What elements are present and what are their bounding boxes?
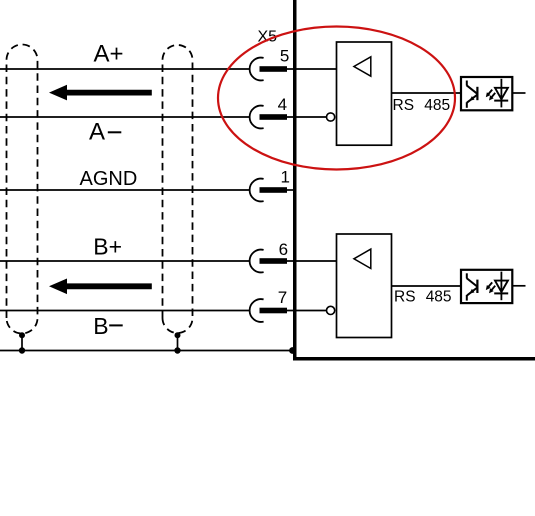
device frame border vertical: [293, 0, 297, 360]
pin 7 contact bar: [260, 308, 288, 314]
pin 6 stub wire to receiver: [287, 260, 337, 262]
OC1 light arrow b: [491, 93, 496, 99]
shield bus wire: [0, 350, 293, 352]
svg-text:RS: RS: [393, 97, 415, 114]
junction dot capsule 1 to shield bus: [19, 347, 25, 353]
optocoupler OC2: [461, 270, 526, 303]
junction dot shield bus to frame: [289, 347, 296, 354]
optocoupler OC1 box: [461, 77, 512, 110]
receiver U2 triangle: [354, 249, 371, 268]
svg-text:485: 485: [424, 97, 450, 114]
signal direction arrow 2: [49, 279, 152, 295]
OC1 right stub wire: [512, 92, 525, 94]
wire B+: [0, 260, 249, 262]
shield drain wire capsule 2: [177, 335, 179, 350]
svg-text:AGND: AGND: [80, 168, 138, 190]
pin 4 contact bar: [260, 114, 288, 120]
pin 5 contact bar: [260, 66, 288, 72]
OC1 light arrow a: [487, 90, 492, 96]
OC1 phototransistor emitter stub: [466, 102, 468, 108]
wire A-: [0, 116, 249, 118]
red highlight ellipse: [218, 27, 455, 170]
svg-text:485: 485: [426, 289, 452, 306]
receiver U2 output wire: [392, 285, 462, 287]
device frame border horizontal: [293, 357, 535, 361]
wire A+: [0, 68, 249, 70]
OC1 phototransistor emitter diagonal: [467, 95, 477, 103]
OC1 phototransistor base bar: [476, 87, 478, 100]
pin 7 stub wire to inverting input: [287, 310, 327, 312]
pin 5 socket arc: [250, 58, 264, 81]
OC1 LED vertical lead: [500, 79, 502, 108]
junction dot capsule 2 to shield bus: [174, 347, 180, 353]
OC1 phototransistor collector diagonal: [467, 85, 478, 94]
pin 6 contact bar: [260, 258, 288, 264]
svg-text:B: B: [93, 313, 108, 339]
OC1 emitter arrowhead: [469, 96, 474, 101]
wire AGND: [0, 189, 249, 191]
receiver U2 box: [337, 234, 392, 338]
OC1 LED triangle: [495, 88, 508, 99]
shield drain dot capsule 2: [175, 332, 181, 338]
OC1 LED cathode bar: [494, 100, 508, 102]
svg-text:A: A: [89, 119, 105, 146]
svg-text:A+: A+: [94, 40, 124, 67]
pin 1 stub wire to frame: [287, 189, 296, 191]
wire B-: [0, 310, 249, 312]
pin 1 socket arc: [250, 179, 264, 202]
signal direction arrow 1: [49, 85, 152, 101]
svg-text:5: 5: [280, 47, 289, 66]
pin 7 socket arc: [250, 299, 264, 322]
svg-text:4: 4: [278, 95, 287, 114]
cable shield capsule 1 (dashed): [7, 45, 38, 334]
receiver U1 triangle: [354, 57, 371, 76]
svg-text:7: 7: [278, 288, 287, 307]
receiver U1 inverting input circle: [327, 113, 335, 121]
OC1 phototransistor collector stub: [466, 81, 468, 86]
pin 6 socket arc: [250, 250, 264, 273]
shield drain dot capsule 1: [19, 332, 25, 338]
pin 1 contact bar: [260, 187, 288, 193]
optocoupler OC1: [461, 77, 526, 110]
svg-text:1: 1: [280, 168, 289, 187]
svg-text:6: 6: [279, 240, 288, 259]
cable shield capsule 2 (dashed): [163, 45, 193, 333]
pin 4 stub wire to inverting input: [287, 116, 327, 118]
pin 4 socket arc: [250, 106, 264, 129]
shield drain wire capsule 1: [21, 335, 23, 350]
receiver U1 box: [337, 42, 392, 145]
svg-text:B+: B+: [93, 234, 122, 260]
receiver U2 inverting input circle: [327, 306, 335, 314]
receiver U1 output wire: [392, 92, 462, 94]
svg-text:RS: RS: [394, 289, 416, 306]
pin 5 stub wire to receiver: [287, 68, 337, 70]
